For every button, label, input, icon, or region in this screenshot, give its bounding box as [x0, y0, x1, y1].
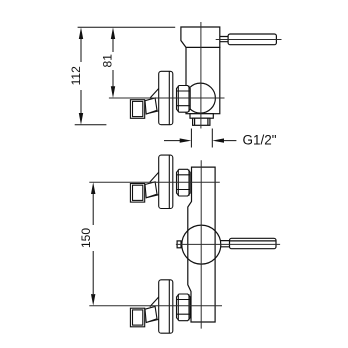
- lever stem front: [221, 241, 230, 247]
- arrow 150 up: [91, 182, 95, 194]
- horizontal axis centerline / 81 extension: [109, 97, 225, 99]
- top fitting axis centerline: [89, 181, 220, 183]
- svg-text:81: 81: [101, 54, 115, 68]
- lever stem: [220, 37, 228, 42]
- arrow 150 down: [91, 294, 95, 306]
- bottom fitting axis centerline: [89, 305, 222, 307]
- control ball circle: [185, 83, 215, 113]
- lever grip highlight line: [230, 240, 277, 242]
- front view centerlines: [89, 160, 280, 328]
- lever grip front: [230, 238, 277, 248]
- svg-text:112: 112: [69, 66, 83, 85]
- side view centerlines: [109, 22, 282, 129]
- ball axis centerline: [176, 243, 280, 245]
- outlet flange: [190, 114, 213, 119]
- left axis cap square: [177, 241, 181, 248]
- lever grip: [228, 34, 276, 45]
- vertical centerline: [200, 22, 202, 129]
- vertical centerline front: [200, 160, 202, 328]
- mixer body front outline: [188, 167, 215, 322]
- svg-text:150: 150: [79, 228, 93, 248]
- cap head with chamfer: [181, 27, 220, 47]
- dim line 150: [92, 194, 94, 294]
- bottom extension line (112): [75, 124, 107, 126]
- dim line 81: [112, 33, 114, 92]
- G1/2 arrow lines: [164, 140, 236, 142]
- G1/2 left arrow: [180, 138, 192, 142]
- arrow 112 down: [79, 113, 83, 125]
- lever axis centerline: [216, 39, 282, 41]
- svg-text:G1/2": G1/2": [243, 132, 277, 147]
- outlet thread: [193, 118, 210, 125]
- control ball circle front: [182, 225, 221, 264]
- G1/2 extension lines: [191, 129, 212, 148]
- arrow 81 down: [111, 86, 115, 98]
- G1/2 right arrow: [212, 138, 224, 142]
- front view bottom wall fitting: [130, 280, 190, 333]
- top extension line: [78, 26, 176, 28]
- mixer body: [186, 47, 220, 113]
- arrow 81 up: [111, 27, 115, 39]
- arrow 112 up: [79, 27, 83, 39]
- front view top wall fitting: [130, 155, 190, 208]
- outlet thread relief lines: [195, 118, 208, 125]
- side view wall fitting: [130, 71, 190, 124]
- dim line 112: [80, 33, 82, 119]
